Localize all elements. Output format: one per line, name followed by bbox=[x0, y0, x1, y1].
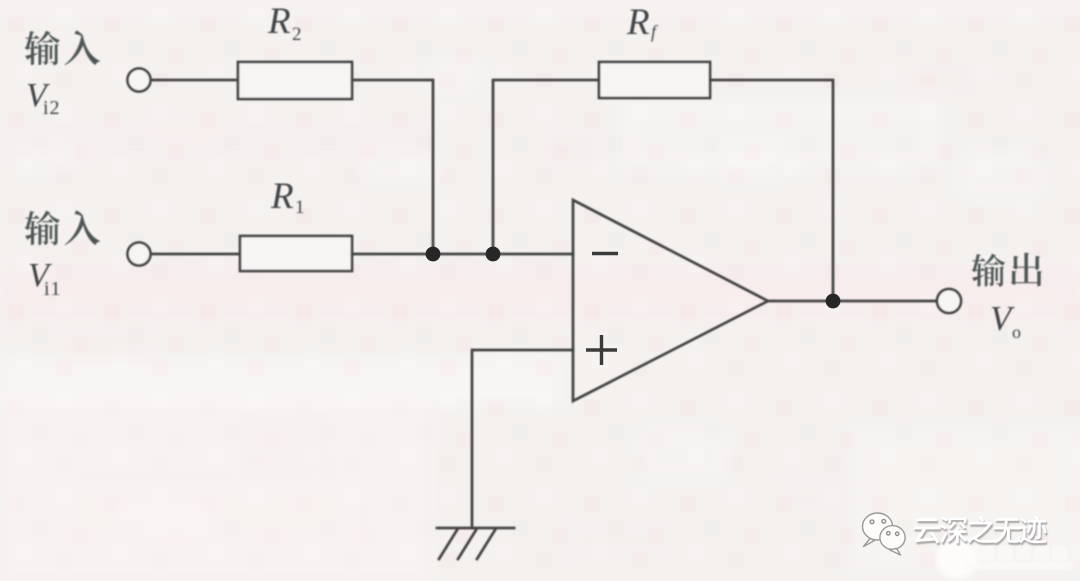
label R2 bbox=[267, 1, 302, 45]
svg-text:o: o bbox=[1012, 322, 1021, 342]
resistor R2 bbox=[238, 62, 352, 99]
op-amp U1 bbox=[573, 200, 768, 401]
junction node A bbox=[426, 247, 441, 262]
label R1 bbox=[270, 176, 305, 218]
svg-text:i1: i1 bbox=[44, 278, 62, 300]
svg-text:R: R bbox=[267, 1, 291, 42]
wire Vi1 to R1 bbox=[151, 253, 240, 256]
label Vo bbox=[990, 299, 1021, 342]
label input Vi1 (Chinese shu-ru) bbox=[25, 210, 101, 245]
junction output node bbox=[826, 294, 841, 309]
resistor R1 bbox=[240, 236, 352, 271]
op-amp plus sign bbox=[586, 335, 617, 365]
bottom-left light zone bbox=[0, 395, 430, 581]
label output (Chinese shu-chu) bbox=[972, 253, 1042, 287]
op-amp minus sign bbox=[592, 252, 618, 255]
label input Vi2 (Chinese shu-ru) bbox=[25, 30, 101, 65]
wire Vi2 to R2 bbox=[151, 79, 238, 82]
svg-text:2: 2 bbox=[292, 24, 302, 45]
wire Rf to output node bbox=[710, 80, 833, 301]
input terminal Vi2 bbox=[128, 69, 151, 92]
wire R2 to node A bbox=[352, 80, 433, 254]
label Vi2 bbox=[26, 77, 61, 119]
watermark wechat logo bbox=[863, 513, 906, 555]
svg-text:R: R bbox=[626, 2, 650, 43]
wire R1 to op-amp inverting input bbox=[352, 253, 573, 256]
watermark text yun-shen-zhi-wu-ji bbox=[914, 516, 1048, 546]
svg-text:1: 1 bbox=[295, 197, 305, 218]
svg-text:R: R bbox=[270, 176, 294, 217]
label Rf bbox=[626, 2, 659, 43]
svg-text:i2: i2 bbox=[43, 97, 61, 119]
wire node B to Rf bbox=[493, 80, 599, 254]
wire op-amp output to terminal bbox=[768, 300, 937, 303]
ground bbox=[437, 528, 514, 559]
resistor Rf bbox=[599, 62, 710, 98]
wire non-inverting input to ground bbox=[472, 350, 573, 528]
input terminal Vi1 bbox=[128, 243, 151, 266]
output terminal Vo bbox=[937, 289, 961, 313]
junction node B bbox=[486, 247, 501, 262]
watermark elecfans logo faint bbox=[936, 537, 1073, 579]
label Vi1 bbox=[28, 257, 62, 300]
